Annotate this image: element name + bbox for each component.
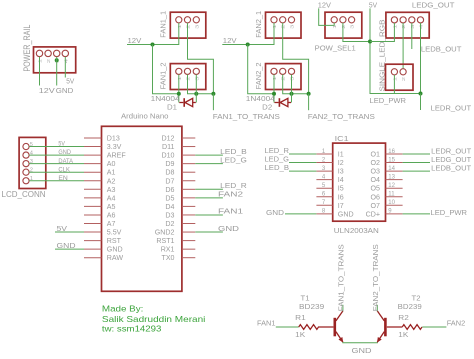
- svg-text:GND: GND: [338, 210, 354, 218]
- wire GND to IC1 pin 8: [285, 213, 316, 215]
- svg-text:LEDB_OUT: LEDB_OUT: [421, 44, 462, 53]
- wire 12V to POW_SEL1 pin1: [319, 8, 335, 25]
- wire 12V to FAN1_1 pin1: [127, 23, 179, 45]
- wire POW_SEL1 pin2 to 5V net: [343, 23, 370, 42]
- FAN2_1 pin 2: [280, 17, 286, 23]
- svg-text:LED_PWR: LED_PWR: [431, 208, 468, 217]
- wire 5V to Arduino 5.5V pin: [55, 231, 84, 233]
- svg-text:15: 15: [388, 157, 395, 163]
- LED connector pin 1: [391, 69, 397, 75]
- Arduino Nano right pin stubs: [182, 138, 195, 258]
- FAN2_2 pin 3: [288, 68, 294, 74]
- POWER_RAIL pin 2: [45, 50, 51, 56]
- svg-text:12: 12: [388, 183, 395, 189]
- IC U1 ULN2003AN (IC1): [333, 143, 386, 221]
- svg-text:GND2: GND2: [155, 229, 175, 237]
- FAN2_1 pin 1: [271, 17, 277, 23]
- connector FAN1_2: [170, 64, 206, 90]
- IC1 right pin names O1-O7 CD+: [366, 151, 380, 219]
- svg-text:FAN1_TO_TRANS: FAN1_TO_TRANS: [213, 112, 280, 121]
- wire LED pin1 down to LED_PWR rail: [393, 75, 395, 94]
- svg-text:A0: A0: [107, 160, 116, 168]
- svg-text:FAN2_1: FAN2_1: [254, 11, 263, 38]
- svg-text:IC1: IC1: [335, 134, 349, 143]
- connector POW_SEL1: [325, 12, 362, 38]
- svg-text:AREF: AREF: [107, 152, 127, 160]
- wire LED_B to IC1 pin 3: [289, 170, 316, 172]
- svg-text:O6: O6: [371, 193, 381, 201]
- svg-text:O5: O5: [371, 185, 381, 193]
- Arduino Nano left pin names: [107, 135, 127, 263]
- diode D1 1N4004 (flyback): [179, 98, 196, 107]
- svg-text:16: 16: [388, 149, 395, 155]
- svg-text:I3: I3: [338, 168, 344, 176]
- svg-text:RST1: RST1: [156, 237, 174, 245]
- Arduino Nano left pin stubs: [84, 138, 102, 258]
- svg-text:GND: GND: [218, 224, 239, 233]
- svg-text:O2: O2: [371, 159, 381, 167]
- svg-text:A1: A1: [107, 169, 116, 177]
- wire RGB pin3 to LEDB_OUT: [411, 23, 413, 49]
- wire FAN1_2 pin1 down to diode anode rail: [178, 75, 180, 103]
- svg-text:LEDR_OUT: LEDR_OUT: [431, 104, 472, 113]
- svg-text:FAN2_2: FAN2_2: [254, 62, 263, 89]
- wire FAN1_2 pin2 jog to pin3 node: [188, 75, 214, 94]
- svg-text:Salik Sadruddin Merani: Salik Sadruddin Merani: [102, 314, 206, 324]
- svg-text:LED_PWR: LED_PWR: [370, 96, 407, 105]
- svg-text:D2: D2: [262, 102, 272, 111]
- wire LCD_CONN pin 2 to Arduino (CLK): [29, 171, 84, 173]
- wire FAN2_2 pin3 to diode cathode: [291, 75, 293, 103]
- svg-text:5V: 5V: [369, 0, 377, 9]
- FAN2_2 pin 2: [280, 68, 286, 74]
- connector LED (2-pin): [386, 64, 414, 90]
- wire Arduino to LED_B: [195, 154, 223, 156]
- FAN2_2 pin 1: [271, 68, 277, 74]
- connector FAN2_1: [266, 12, 302, 38]
- svg-text:5V: 5V: [58, 141, 65, 148]
- svg-text:A4: A4: [107, 194, 116, 202]
- svg-text:FAN2_TO_TRANS: FAN2_TO_TRANS: [371, 244, 380, 311]
- svg-text:BD239: BD239: [299, 302, 324, 311]
- wire down to LEDR_OUT label: [420, 94, 422, 111]
- connector LCD_CONN: [19, 137, 46, 188]
- svg-text:FAN1: FAN1: [218, 207, 243, 216]
- svg-text:EN: EN: [58, 175, 68, 182]
- wire LCD_CONN pin 4 to Arduino (GND): [29, 154, 84, 156]
- svg-text:D9: D9: [165, 160, 174, 168]
- svg-text:LED_B: LED_B: [265, 163, 290, 172]
- junction FAN2_2 pin1: [272, 92, 276, 96]
- svg-text:CD+: CD+: [366, 210, 380, 218]
- svg-text:RST: RST: [107, 237, 122, 245]
- svg-text:2: 2: [401, 76, 406, 81]
- LED connector pin 2: [400, 69, 406, 75]
- svg-text:GND: GND: [57, 241, 76, 250]
- wire IC1 pin 15 to LEDG_OUT: [403, 162, 430, 164]
- svg-text:A7: A7: [107, 220, 116, 228]
- FAN1_2 pin 2: [184, 68, 190, 74]
- svg-text:I2: I2: [338, 159, 344, 167]
- svg-text:12V: 12V: [128, 36, 142, 45]
- wire LED_R to IC1 pin 1: [289, 153, 316, 155]
- wire junction down to FAN1_2 rail: [153, 45, 179, 94]
- resistor R1: [299, 325, 334, 330]
- svg-text:LEDG_OUT: LEDG_OUT: [412, 0, 455, 9]
- svg-text:D8: D8: [165, 169, 174, 177]
- wire IC1 pin 14 to LEDB_OUT: [403, 170, 430, 172]
- svg-text:O1: O1: [371, 151, 381, 159]
- LCD_CONN pin 5: [23, 143, 29, 149]
- svg-text:3.3V: 3.3V: [107, 143, 122, 151]
- wire 12V to FAN2_1 pin1: [222, 23, 274, 45]
- svg-text:I5: I5: [338, 185, 344, 193]
- junction rail to FAN1_TO_TRANS: [211, 92, 215, 96]
- svg-text:D11: D11: [162, 143, 175, 151]
- svg-text:3: 3: [290, 24, 295, 29]
- svg-text:GND: GND: [56, 86, 74, 95]
- junction rail to FAN2_TO_TRANS: [307, 92, 311, 96]
- LCD_CONN pin 2: [23, 169, 29, 175]
- POWER_RAIL pin 3: [54, 50, 60, 56]
- wire 5V vertical down to LED_PWR rail: [370, 8, 421, 93]
- wire T1 collector up: [342, 305, 344, 312]
- wire RGB pin4 down to LED_PWR junction: [420, 23, 422, 94]
- wire down to FAN1_TO_TRANS label: [212, 94, 214, 111]
- POW_SEL1 pin 2: [340, 17, 346, 23]
- svg-text:11: 11: [388, 192, 395, 198]
- wire Arduino to LED_G: [195, 163, 223, 165]
- wire IC1 pin 16 to LEDR_OUT: [403, 153, 430, 155]
- svg-text:LCD_CONN: LCD_CONN: [2, 190, 46, 199]
- connector SINGLE_LED_RGB: [386, 12, 429, 38]
- junction 12V / FAN2_2 branch: [246, 43, 250, 47]
- svg-text:A6: A6: [107, 211, 116, 219]
- junction on POWER_RAIL pin 3: [55, 58, 59, 62]
- svg-text:D3: D3: [165, 211, 174, 219]
- svg-text:I7: I7: [338, 202, 344, 210]
- POWER_RAIL pin 4: [62, 50, 68, 56]
- LCD_CONN pin 4: [23, 152, 29, 158]
- svg-text:D13: D13: [107, 135, 120, 143]
- transistor T1 BD239: [335, 311, 343, 342]
- svg-text:I4: I4: [338, 176, 344, 184]
- svg-text:O7: O7: [371, 202, 381, 210]
- svg-text:I6: I6: [338, 193, 344, 201]
- wire FAN1_1 pin2 over to transistor net: [188, 23, 214, 94]
- svg-text:FAN2: FAN2: [447, 319, 466, 328]
- wire FAN2 to R2: [422, 326, 446, 328]
- svg-text:D10: D10: [161, 152, 174, 160]
- wire down to FAN2_TO_TRANS label: [308, 94, 310, 111]
- svg-text:A3: A3: [107, 186, 116, 194]
- svg-text:FAN2_TO_TRANS: FAN2_TO_TRANS: [308, 112, 375, 121]
- wire LED_G to IC1 pin 2: [289, 162, 316, 164]
- IC1 right pin numbers 16-9: [388, 149, 395, 215]
- svg-text:12V: 12V: [318, 0, 331, 9]
- wire IC1 pin 9 to LED_PWR: [403, 213, 430, 215]
- connector FAN1_1: [170, 12, 206, 38]
- SINGLE_LED_RGB pin 3: [409, 17, 415, 23]
- wire RGB pin2 down to LED2 pin2: [402, 23, 404, 69]
- wire FAN2_1 pin2 over to transistor net: [283, 23, 309, 94]
- POWER_RAIL pin 1: [36, 50, 42, 56]
- FAN1_1 pin 3: [193, 17, 199, 23]
- wire FAN1 to R1: [276, 326, 299, 328]
- svg-text:5V: 5V: [57, 224, 68, 233]
- svg-text:GND: GND: [266, 208, 284, 217]
- svg-text:A5: A5: [107, 203, 116, 211]
- svg-text:3: 3: [194, 24, 199, 29]
- svg-text:D2: D2: [165, 220, 174, 228]
- junction FAN1_2 pin3 node: [194, 92, 198, 96]
- wire FAN2_2 pin1 down to diode anode rail: [273, 75, 275, 103]
- wire POWER_RAIL pin4 to 5V label: [64, 57, 66, 78]
- junction 12V / FAN1_2 branch: [151, 43, 155, 47]
- wire T2 collector up: [376, 305, 378, 312]
- svg-text:D5: D5: [165, 194, 174, 202]
- svg-text:POW_SEL1: POW_SEL1: [315, 44, 356, 53]
- svg-text:FAN1_TO_TRANS: FAN1_TO_TRANS: [337, 244, 346, 311]
- diode D2 1N4004 (flyback): [275, 98, 292, 107]
- connector FAN2_2: [266, 64, 302, 90]
- SINGLE_LED_RGB pin 1: [391, 17, 397, 23]
- FAN1_1 pin 2: [184, 17, 190, 23]
- svg-text:5.5V: 5.5V: [107, 229, 122, 237]
- svg-text:13: 13: [388, 174, 395, 180]
- junction FAN2_2 pin3 node: [290, 92, 294, 96]
- SINGLE_LED_RGB pin 2: [400, 17, 406, 23]
- svg-text:tw: ssm14293: tw: ssm14293: [102, 324, 162, 334]
- svg-text:D6: D6: [165, 186, 174, 194]
- wire POWER_RAIL pin1 to 12V label: [39, 57, 41, 86]
- connector POWER_RAIL: [34, 47, 76, 73]
- svg-text:FAN1_2: FAN1_2: [159, 62, 168, 89]
- svg-text:R2: R2: [398, 313, 409, 322]
- svg-text:GND: GND: [107, 246, 123, 254]
- FAN1_2 pin 3: [193, 68, 199, 74]
- LCD_CONN pin 1: [23, 178, 29, 184]
- SINGLE_LED_RGB pin 4: [417, 17, 423, 23]
- svg-text:D4: D4: [165, 203, 174, 211]
- resistor R2: [387, 325, 422, 330]
- svg-text:14: 14: [388, 166, 395, 172]
- wire Arduino to FAN1: [195, 214, 223, 216]
- svg-text:GND: GND: [58, 149, 71, 156]
- FAN1_1 pin 1: [176, 17, 182, 23]
- IC1 left pin names I1-I7 GND: [338, 151, 354, 219]
- junction LED_PWR / LEDR_OUT: [419, 92, 423, 96]
- svg-text:FAN2: FAN2: [218, 190, 243, 199]
- svg-text:3: 3: [350, 24, 355, 29]
- svg-text:Arduino Nano: Arduino Nano: [121, 112, 169, 121]
- svg-text:D1: D1: [167, 102, 177, 111]
- IC1 right pin stubs: [386, 154, 403, 214]
- svg-text:2: 2: [46, 58, 51, 63]
- wire Arduino to LED_R: [195, 188, 223, 190]
- wire LCD_CONN pin 1 to Arduino (EN): [29, 180, 84, 182]
- junction FAN1_2 pin1: [177, 92, 181, 96]
- svg-text:POWER_RAIL: POWER_RAIL: [22, 25, 32, 72]
- wire FAN2_2 pin2 jog to pin3 node: [283, 75, 309, 94]
- svg-text:FAN1_1: FAN1_1: [159, 11, 168, 38]
- svg-text:LED_G: LED_G: [220, 155, 247, 164]
- svg-text:D12: D12: [161, 135, 174, 143]
- POW_SEL1 pin 3: [349, 17, 355, 23]
- POW_SEL1 pin 1: [331, 17, 337, 23]
- Arduino Nano right pin names: [155, 135, 175, 263]
- svg-text:FAN1: FAN1: [257, 319, 276, 328]
- svg-text:TX0: TX0: [161, 254, 174, 262]
- svg-text:12V: 12V: [223, 36, 237, 45]
- svg-text:1K: 1K: [398, 330, 408, 339]
- svg-text:RX1: RX1: [161, 246, 175, 254]
- wire POWER_RAIL pin3 to GND label: [56, 57, 58, 86]
- wire GND to Arduino GND pin: [55, 248, 84, 250]
- svg-text:5V: 5V: [66, 77, 74, 86]
- svg-text:D7: D7: [165, 177, 174, 185]
- wire LCD_CONN pin 5 to Arduino (5V): [29, 146, 84, 148]
- FAN2_1 pin 3: [288, 17, 294, 23]
- junction 5V / RGB pin1: [368, 40, 372, 44]
- wire junction down to FAN2_2 rail: [248, 45, 274, 94]
- LCD_CONN pin 3: [23, 161, 29, 167]
- wire LCD_CONN pin 3 to Arduino (DATA): [29, 163, 84, 165]
- svg-text:Made By:: Made By:: [102, 304, 143, 314]
- svg-text:RAW: RAW: [107, 254, 124, 262]
- svg-text:ULN2003AN: ULN2003AN: [334, 226, 379, 235]
- svg-text:GND: GND: [352, 346, 372, 355]
- FAN1_2 pin 1: [176, 68, 182, 74]
- svg-text:DATA: DATA: [58, 158, 73, 165]
- wire FAN1_2 pin3 to diode cathode: [195, 75, 197, 103]
- svg-text:O4: O4: [371, 176, 381, 184]
- svg-text:1K: 1K: [295, 330, 305, 339]
- wire Arduino to FAN2: [195, 197, 223, 199]
- IC1 left pin stubs: [316, 154, 332, 214]
- svg-text:12V: 12V: [39, 86, 55, 95]
- svg-text:LEDB_OUT: LEDB_OUT: [431, 164, 471, 173]
- wire T1 emitter to GND rail: [343, 341, 377, 344]
- svg-text:10: 10: [388, 200, 395, 206]
- svg-text:BD239: BD239: [398, 302, 422, 311]
- IC1 left pin numbers 1-8: [322, 149, 326, 215]
- wire RGB pin1 to 5V junction: [370, 23, 394, 42]
- svg-text:O3: O3: [371, 168, 381, 176]
- svg-text:I1: I1: [338, 151, 344, 159]
- wire Arduino to GND: [195, 231, 223, 233]
- IC Arduino Nano: [102, 126, 182, 291]
- transistor T2 BD239: [377, 311, 385, 342]
- svg-text:R1: R1: [295, 313, 306, 322]
- svg-text:CLK: CLK: [58, 166, 70, 173]
- svg-text:A2: A2: [107, 177, 116, 185]
